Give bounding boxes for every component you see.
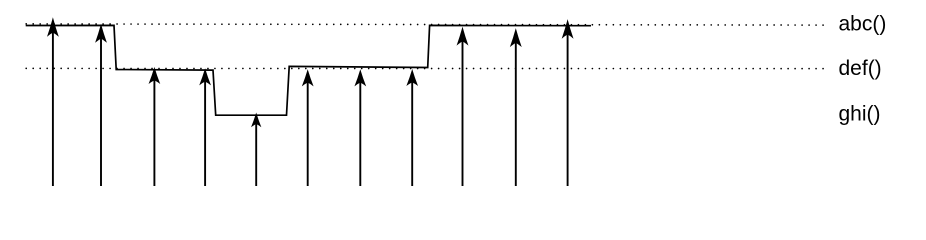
node label def() — [839, 57, 882, 80]
dotted line def level — [26, 67, 824, 69]
node label ghi() — [839, 102, 881, 125]
node sample-arrow 5 — [252, 114, 260, 186]
node sample-arrow 10 — [511, 30, 521, 186]
node sample-arrow 7 — [355, 71, 365, 186]
node sample-arrow 6 — [303, 71, 313, 186]
node sample-arrow 1 — [48, 19, 58, 186]
dotted line abc level — [26, 24, 824, 25]
svg-text:def(): def() — [839, 57, 882, 80]
node sample-arrow 3 — [150, 69, 160, 187]
node sample-arrow 8 — [407, 71, 417, 187]
node sample-arrow 11 — [563, 21, 573, 186]
svg-text:abc(): abc() — [839, 13, 887, 36]
node label abc() — [839, 13, 887, 36]
node sample-arrow 4 — [200, 70, 210, 186]
svg-text:ghi(): ghi() — [839, 102, 881, 125]
node sample-arrow 9 — [458, 28, 468, 186]
node sample-arrow 2 — [96, 26, 106, 187]
wire: call-stack step trace — [26, 25, 591, 115]
